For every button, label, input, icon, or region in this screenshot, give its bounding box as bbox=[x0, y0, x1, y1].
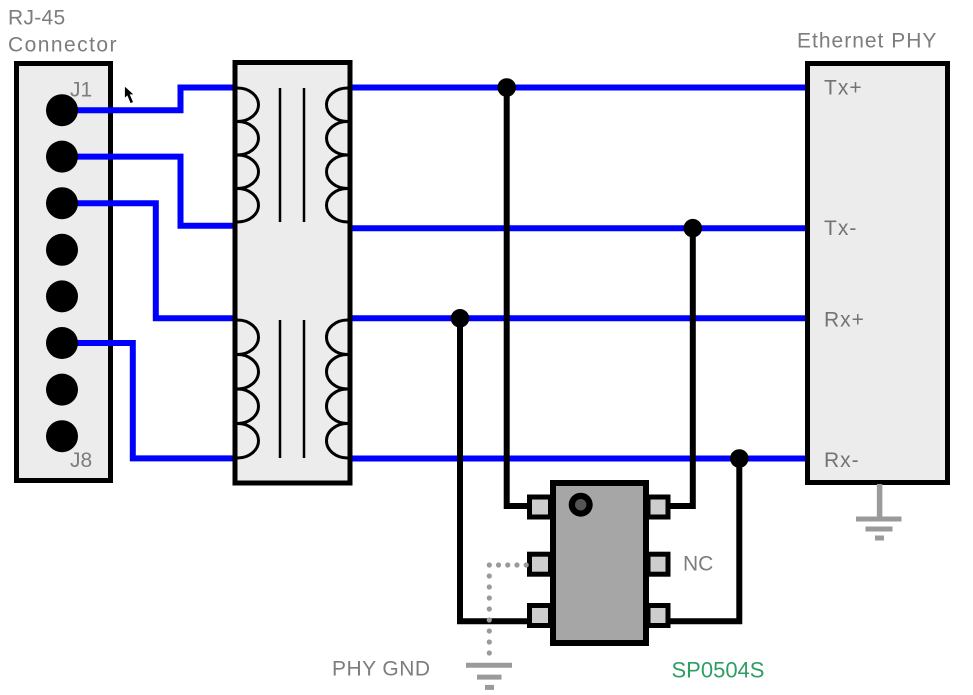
U1 pin 6 (top right) bbox=[648, 497, 668, 517]
wire transformer to PHY Rx- bbox=[350, 456, 808, 462]
U1 pin1 marker bbox=[569, 493, 593, 517]
U1 pin 4 (bottom right) bbox=[648, 606, 668, 626]
junction on Tx- bbox=[684, 219, 703, 238]
U1 pin 1 (top left) bbox=[530, 497, 551, 517]
connector J1-J8 body bbox=[17, 64, 111, 481]
pin 1 bbox=[46, 94, 78, 126]
svg-text:RJ-45: RJ-45 bbox=[8, 7, 66, 30]
transformer T2 primary winding (bottom left) bbox=[238, 320, 259, 458]
U1 SP0504S body bbox=[553, 483, 646, 643]
wire transformer to PHY Tx+ bbox=[350, 85, 808, 91]
junction on Rx- bbox=[730, 449, 749, 468]
wire transformer to PHY Rx+ bbox=[350, 315, 808, 321]
Ethernet PHY body bbox=[808, 64, 948, 483]
svg-text:Rx+: Rx+ bbox=[824, 309, 865, 332]
wire pin2 to transformer bbox=[62, 157, 235, 226]
svg-text:Ethernet PHY: Ethernet PHY bbox=[797, 30, 937, 53]
dotted wire U1 pin2 to PHY GND bbox=[489, 562, 526, 567]
junction on Rx+ bbox=[451, 309, 470, 328]
wire transformer to PHY Tx- bbox=[350, 225, 808, 231]
wire U1 pin1 to Tx+ net bbox=[507, 88, 529, 507]
transformer T1 secondary winding (top right) bbox=[327, 88, 348, 222]
svg-text:SP0504S: SP0504S bbox=[672, 658, 765, 683]
pin 5 bbox=[46, 280, 78, 312]
svg-text:Tx-: Tx- bbox=[824, 217, 857, 240]
svg-text:Connector: Connector bbox=[8, 34, 118, 57]
transformer T1 primary winding (top left) bbox=[238, 88, 259, 222]
pin 8 bbox=[46, 420, 78, 452]
PHY ground symbol bbox=[856, 484, 902, 538]
wire pin3 to transformer bbox=[62, 203, 235, 318]
label RJ-45 Connector bbox=[8, 7, 118, 57]
wire pin6 to transformer bbox=[62, 343, 235, 458]
junction on Tx+ bbox=[497, 78, 516, 97]
pin 3 bbox=[46, 187, 78, 219]
svg-text:Tx+: Tx+ bbox=[824, 77, 863, 100]
wire pin1 to transformer bbox=[62, 88, 235, 111]
transformer T2 secondary winding (bottom right) bbox=[327, 320, 348, 458]
svg-text:J1: J1 bbox=[70, 79, 92, 102]
wire U1 pin3 to Rx+ net bbox=[460, 318, 529, 621]
PHY GND ground symbol bbox=[466, 665, 512, 687]
transformer T2 core bbox=[279, 320, 282, 458]
pin 4 bbox=[46, 234, 78, 266]
svg-text:J8: J8 bbox=[70, 449, 92, 472]
U1 pin 2 (mid left) bbox=[530, 554, 551, 574]
svg-text:NC: NC bbox=[683, 553, 713, 576]
U1 pin 5 (mid right) bbox=[648, 554, 668, 574]
pin 6 bbox=[46, 327, 78, 359]
transformer T1 core bbox=[279, 88, 282, 222]
U1 pin 3 (bottom left) bbox=[530, 606, 551, 626]
transformer T1 body bbox=[235, 63, 350, 484]
wire U1 pin6 to Tx- net bbox=[668, 228, 693, 506]
svg-text:Rx-: Rx- bbox=[824, 449, 860, 472]
pin 7 bbox=[46, 374, 78, 406]
wire U1 pin4 to Rx- net bbox=[668, 459, 739, 622]
mouse cursor bbox=[125, 87, 133, 103]
pin 2 bbox=[46, 141, 78, 173]
svg-text:PHY GND: PHY GND bbox=[332, 658, 430, 681]
